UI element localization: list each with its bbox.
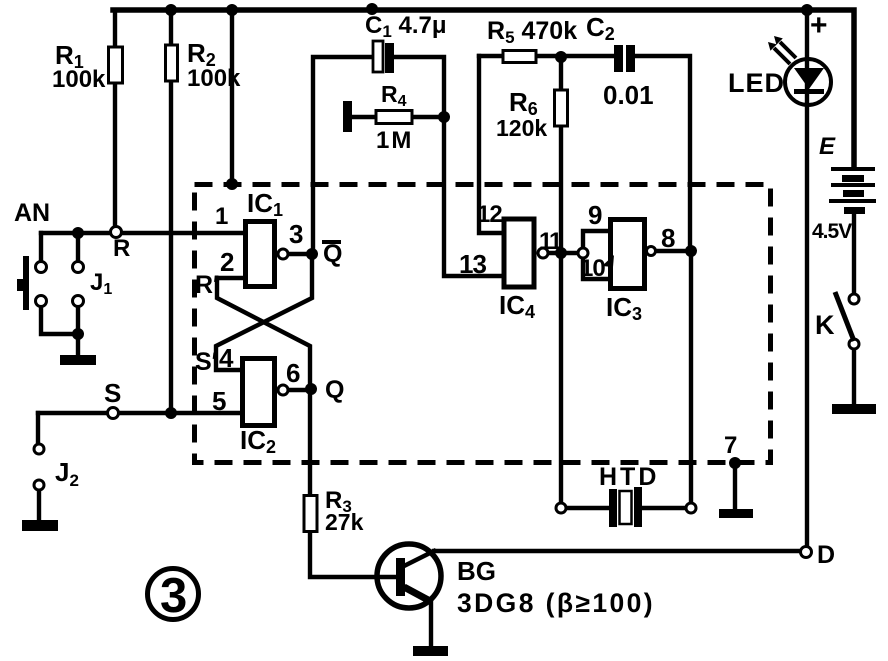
svg-text:BG: BG xyxy=(457,556,496,586)
svg-text:R: R xyxy=(113,235,130,262)
svg-text:11: 11 xyxy=(539,228,562,255)
svg-text:2: 2 xyxy=(220,247,234,277)
svg-text:13: 13 xyxy=(459,249,486,279)
svg-text:E: E xyxy=(819,133,836,160)
svg-text:D: D xyxy=(817,541,835,569)
svg-text:LED: LED xyxy=(728,68,785,98)
svg-text:S′: S′ xyxy=(195,348,218,376)
svg-text:+: + xyxy=(810,9,828,42)
svg-text:C1 4.7μ: C1 4.7μ xyxy=(365,12,447,41)
svg-text:9: 9 xyxy=(588,200,602,230)
svg-text:100k: 100k xyxy=(187,65,241,92)
svg-text:3: 3 xyxy=(160,569,187,623)
svg-text:27k: 27k xyxy=(325,509,364,535)
svg-text:6: 6 xyxy=(286,358,300,388)
svg-text:R5 470k: R5 470k xyxy=(487,17,577,47)
svg-text:1: 1 xyxy=(215,203,228,230)
svg-text:120k: 120k xyxy=(496,115,547,141)
svg-text:12: 12 xyxy=(477,201,502,228)
svg-text:100k: 100k xyxy=(52,66,106,93)
svg-text:3: 3 xyxy=(289,219,303,249)
svg-text:Q: Q xyxy=(323,240,342,268)
svg-text:HTD: HTD xyxy=(599,463,659,491)
svg-text:Q: Q xyxy=(325,376,344,404)
svg-text:5: 5 xyxy=(212,386,226,416)
svg-text:K: K xyxy=(815,310,835,340)
svg-text:S: S xyxy=(104,378,121,408)
svg-text:4: 4 xyxy=(219,343,234,373)
svg-text:7: 7 xyxy=(724,432,737,459)
svg-text:R′: R′ xyxy=(195,271,219,299)
svg-text:8: 8 xyxy=(661,223,675,253)
svg-text:3DG8 (β≥100): 3DG8 (β≥100) xyxy=(457,588,655,618)
svg-text:AN: AN xyxy=(14,199,50,227)
svg-text:4.5V: 4.5V xyxy=(812,220,852,243)
svg-text:0.01: 0.01 xyxy=(603,80,654,110)
svg-text:1M: 1M xyxy=(376,127,413,154)
svg-text:10: 10 xyxy=(580,255,605,282)
